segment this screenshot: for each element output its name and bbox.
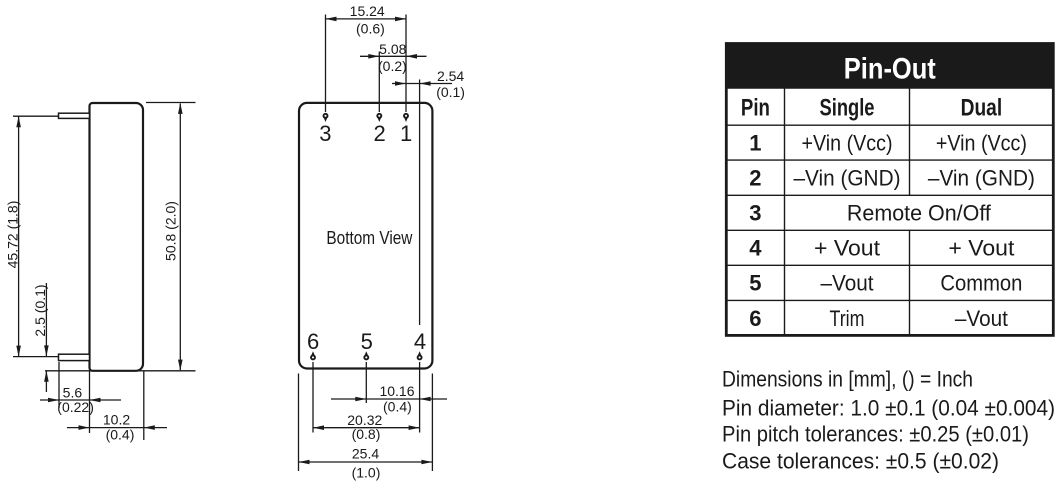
svg-text:5.08: 5.08 <box>379 41 406 57</box>
svg-text:(0.2): (0.2) <box>378 58 407 74</box>
svg-text:10.2: 10.2 <box>103 411 130 427</box>
table row 2 <box>749 166 1035 191</box>
dimension 20.32 (0.8) <box>313 412 420 442</box>
table row 6 <box>749 306 1008 331</box>
svg-text:Dimensions in [mm], () = Inch: Dimensions in [mm], () = Inch <box>722 367 973 392</box>
svg-text:(0.4): (0.4) <box>106 426 135 442</box>
pin 1 marker <box>404 117 408 122</box>
dimension 15.24 (0.6) <box>326 3 407 36</box>
pin 2 marker <box>377 117 381 122</box>
dimension 25.4 (1.0) <box>299 445 433 480</box>
svg-text:6: 6 <box>749 306 761 331</box>
svg-text:+Vin (Vcc): +Vin (Vcc) <box>936 131 1027 156</box>
svg-text:Pin pitch tolerances: ±0.25 (±: Pin pitch tolerances: ±0.25 (±0.01) <box>722 422 1029 447</box>
pin 3 marker <box>324 117 328 122</box>
extension line top pin <box>13 115 59 117</box>
table row 4 <box>749 236 1014 261</box>
notes text block <box>722 367 1055 474</box>
svg-text:1: 1 <box>749 131 761 156</box>
dimension 50.8 (2.0) <box>163 103 183 371</box>
extension line case left edge <box>89 371 91 433</box>
dimension 45.72 (1.8) <box>4 116 21 356</box>
svg-text:Pin diameter: 1.0 ±0.1 (0.04 ±: Pin diameter: 1.0 ±0.1 (0.04 ±0.004) <box>722 395 1055 420</box>
svg-text:3: 3 <box>319 121 331 146</box>
extension line pin tip <box>58 362 60 408</box>
extension line bottom pin <box>13 356 59 358</box>
top pin (side view) <box>59 113 90 118</box>
svg-text:Pin: Pin <box>741 95 770 122</box>
svg-text:–Vin (GND): –Vin (GND) <box>928 166 1035 191</box>
extension line pin 3 <box>325 15 327 113</box>
case bottom edge extension <box>45 370 196 372</box>
svg-text:(0.4): (0.4) <box>383 398 412 414</box>
extension line pin 2 <box>378 52 380 113</box>
table row 3 <box>749 201 991 226</box>
bottom pin (side view) <box>59 354 90 360</box>
svg-text:3: 3 <box>749 201 761 226</box>
svg-text:(1.0): (1.0) <box>352 464 381 480</box>
side view case body <box>90 103 144 371</box>
svg-text:Dual: Dual <box>961 95 1003 122</box>
extension line case right edge <box>143 371 145 440</box>
extension line pin 6 <box>312 362 314 433</box>
svg-text:2.54: 2.54 <box>437 68 464 84</box>
table row 5 <box>749 271 1022 296</box>
svg-text:25.4: 25.4 <box>352 445 379 461</box>
svg-text:15.24: 15.24 <box>350 3 385 19</box>
svg-text:4: 4 <box>749 236 762 261</box>
table grid <box>726 44 1053 336</box>
svg-text:2: 2 <box>373 121 385 146</box>
dimension 10.16 (0.4) <box>331 383 447 415</box>
pin 5 marker <box>364 351 368 356</box>
svg-text:Trim: Trim <box>830 306 865 331</box>
pin-out table header band <box>726 44 1053 89</box>
bottom view case outline <box>299 103 432 369</box>
svg-text:10.16: 10.16 <box>379 383 414 399</box>
svg-text:5: 5 <box>361 329 373 354</box>
svg-text:50.8 (2.0): 50.8 (2.0) <box>163 201 179 261</box>
extension line pin 1 <box>405 15 407 113</box>
dimension 5.08 (0.2) <box>360 41 427 74</box>
svg-text:–Vout: –Vout <box>821 271 874 296</box>
svg-text:Remote On/Off: Remote On/Off <box>847 201 992 226</box>
dimension 10.2 (0.4) <box>67 411 167 442</box>
svg-text:+Vin (Vcc): +Vin (Vcc) <box>802 131 893 156</box>
extension line pin 4 bottom <box>419 362 421 433</box>
case top edge extension <box>146 102 196 104</box>
extension line case right <box>431 374 433 472</box>
svg-text:+ Vout: + Vout <box>814 236 880 261</box>
extension line case left <box>298 374 300 472</box>
svg-text:(0.22): (0.22) <box>57 399 94 415</box>
svg-text:1: 1 <box>400 121 412 146</box>
svg-text:45.72 (1.8): 45.72 (1.8) <box>4 201 20 269</box>
svg-text:2.5 (0.1): 2.5 (0.1) <box>32 284 48 336</box>
svg-text:(0.6): (0.6) <box>356 21 385 37</box>
svg-text:(0.8): (0.8) <box>352 426 381 442</box>
extension line pin 5 <box>365 362 367 403</box>
svg-text:(0.1): (0.1) <box>436 84 465 100</box>
svg-text:4: 4 <box>414 329 426 354</box>
table row 1 <box>749 131 1027 156</box>
svg-text:6: 6 <box>307 329 319 354</box>
svg-text:+ Vout: + Vout <box>948 236 1014 261</box>
svg-text:Pin-Out: Pin-Out <box>844 53 936 86</box>
svg-text:5: 5 <box>749 271 761 296</box>
dimension 2.5 (0.1) <box>32 283 49 392</box>
dimension 2.54 (0.1) <box>392 68 465 100</box>
svg-text:Single: Single <box>820 95 875 122</box>
svg-text:–Vout: –Vout <box>955 306 1008 331</box>
svg-text:–Vin (GND): –Vin (GND) <box>794 166 901 191</box>
svg-text:2: 2 <box>749 166 761 191</box>
svg-text:Common: Common <box>940 271 1022 296</box>
svg-text:Case tolerances: ±0.5 (±0.02): Case tolerances: ±0.5 (±0.02) <box>722 448 999 473</box>
pin 4 marker <box>418 351 422 356</box>
extension line pin 4 column <box>419 80 421 326</box>
svg-text:Bottom View: Bottom View <box>326 227 413 248</box>
dimension 5.6 (0.22) <box>40 384 121 415</box>
pin 6 marker <box>311 351 315 356</box>
